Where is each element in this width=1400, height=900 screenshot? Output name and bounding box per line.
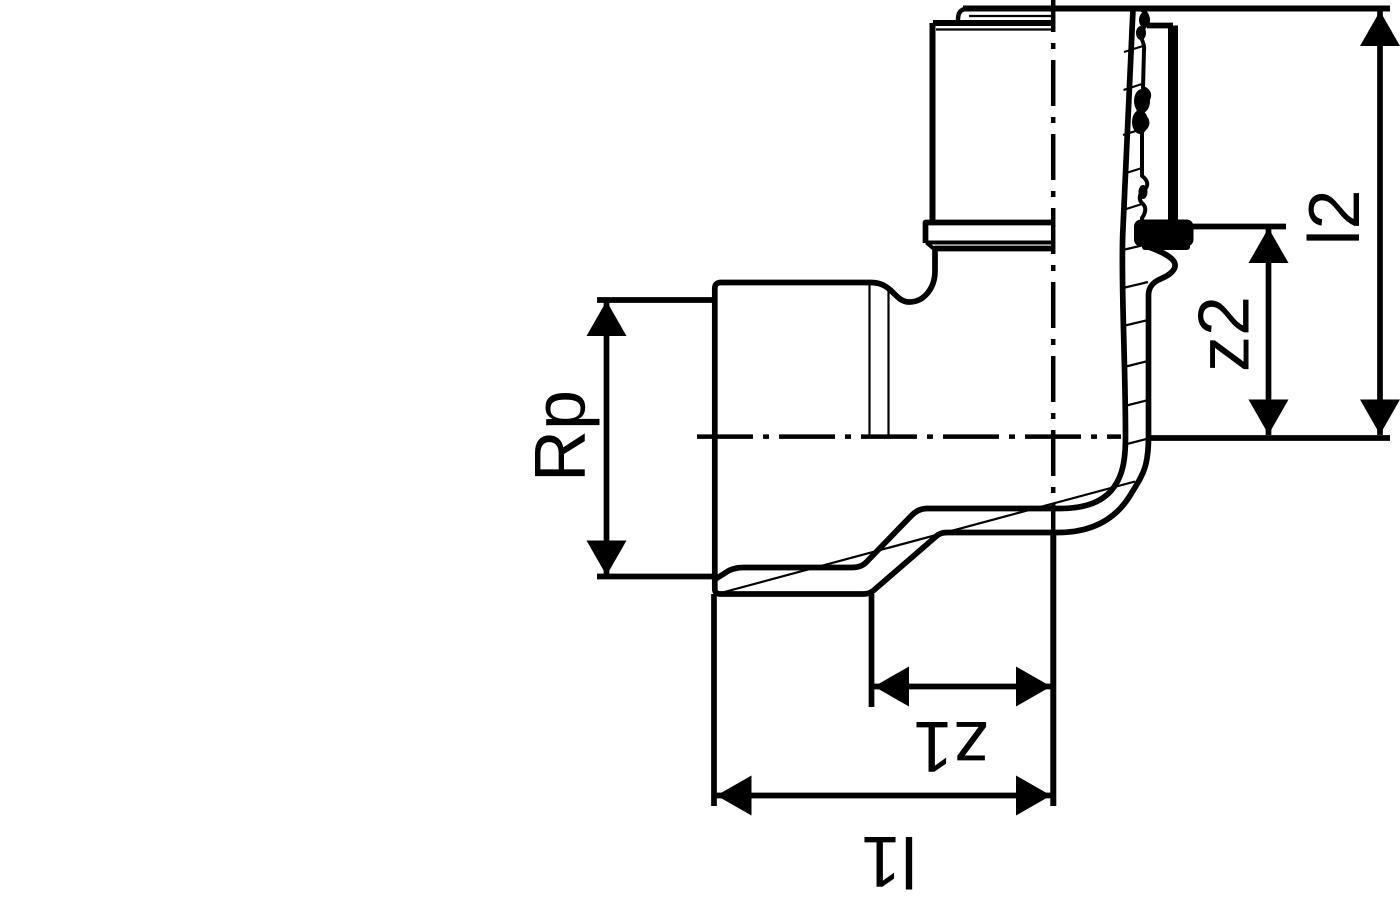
svg-text:Rp: Rp	[521, 390, 601, 482]
svg-text:l2: l2	[1295, 189, 1375, 245]
dimension z2 arrow down	[1249, 400, 1289, 435]
wire top pipe end face / l2 top extension line	[963, 6, 1390, 12]
dimension Rp arrow down	[587, 541, 627, 576]
wire wavy line thick blobs	[1134, 89, 1150, 113]
dimension l2 arrow down	[1360, 400, 1400, 435]
seal O-ring black bead	[1134, 220, 1194, 247]
dimension z1 arrow right	[1016, 667, 1051, 707]
dimension Rp bottom extension line	[597, 574, 712, 580]
wire hatch marks upper wall	[1123, 46, 1149, 445]
wire pipe end face second line	[933, 20, 1053, 26]
wire body outline: collar bottom, neck valley, Rp socket top edge, mouth, lower zig, outer elbow bend, right wall, seal hook	[715, 246, 1175, 594]
dimension l1 left extension line	[711, 594, 717, 806]
dimension z2 arrow up	[1249, 228, 1289, 263]
dimension z2 line	[1266, 228, 1272, 435]
wire long thin cone edge diagonal	[715, 482, 1135, 595]
svg-text:z1: z1	[913, 706, 989, 786]
node horizontal centerline dash-dot	[697, 434, 1121, 439]
wire freehand break wavy line	[1139, 9, 1150, 221]
arrowheads	[587, 11, 1400, 816]
dimension z1 line	[874, 684, 1051, 690]
dimension l1 arrow left	[717, 776, 752, 816]
dimension Rp line	[604, 302, 610, 575]
dimension z1 arrow left	[874, 667, 909, 707]
wire inserted pipe top hook	[1147, 23, 1173, 29]
dimension Rp top extension line	[597, 297, 712, 303]
wire collar lower step	[927, 243, 934, 249]
svg-text:l1: l1	[861, 821, 917, 900]
node vertical centerline dash-dot	[1051, 0, 1056, 530]
wire pipe end inner thin line lower	[936, 28, 1052, 30]
wire pipe mouth lip curl	[958, 9, 967, 21]
wire inserted pipe right edge bar	[1168, 26, 1178, 222]
wire vertical socket left outer edge	[930, 23, 936, 223]
dimension l1 z1 right extension line solid centerline	[1050, 530, 1056, 806]
wire Rp thread line left	[868, 283, 870, 437]
dimension l1 line	[717, 793, 1052, 799]
wire inner wall: upper zig and inner elbow bend and slant line A	[716, 9, 1134, 579]
dimension Rp arrow up	[587, 301, 627, 336]
dimension l2 arrow up	[1360, 11, 1400, 46]
wire pipe end inner thin line upper	[969, 15, 1052, 17]
dimension z1 left extension line	[869, 594, 875, 707]
wire Rp thread line right	[887, 289, 889, 436]
collar press bead of vertical socket	[926, 223, 1054, 244]
dimension l2 bottom extension line	[1147, 435, 1390, 441]
svg-text:z2: z2	[1185, 296, 1265, 372]
dimension l1 arrow right	[1016, 776, 1051, 816]
dimension l2 line	[1377, 11, 1383, 435]
dimension z2 top extension line	[1190, 224, 1286, 230]
